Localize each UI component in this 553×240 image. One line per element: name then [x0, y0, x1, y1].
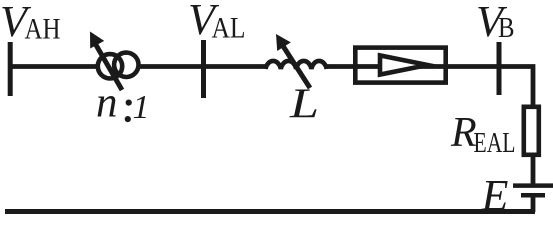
svg-text:EAL: EAL — [474, 127, 516, 159]
svg-text:n: n — [96, 80, 118, 127]
wire amplifier to corner and down — [448, 67, 533, 187]
wire transformer to inductor — [140, 64, 266, 69]
wire through amplifier box — [353, 64, 448, 69]
inductor L coil — [266, 61, 327, 69]
battery E top plate — [513, 183, 553, 188]
label VB — [476, 0, 515, 46]
node VAH tick — [8, 42, 13, 96]
wire battery to ground rail — [531, 195, 536, 212]
wire inductor to amplifier — [327, 64, 356, 69]
battery E bottom plate — [521, 193, 545, 198]
amplifier triangle — [380, 55, 428, 74]
node VAL tick — [201, 40, 206, 98]
label VAH — [0, 0, 61, 46]
resistor REAL body — [524, 107, 539, 155]
svg-text:1: 1 — [133, 89, 150, 126]
svg-text:B: B — [498, 12, 515, 44]
wire from VAH tick to transformer — [10, 64, 97, 69]
inductor adjustment arrow — [276, 34, 310, 88]
transformer adjustment arrow — [90, 32, 122, 91]
amplifier U1 box — [355, 48, 445, 83]
svg-text:AL: AL — [212, 13, 246, 45]
svg-text:AH: AH — [25, 14, 61, 46]
ground rail — [5, 209, 535, 214]
label VAL — [188, 0, 246, 45]
svg-text:L: L — [289, 82, 319, 128]
label REAL — [450, 110, 516, 159]
transformer T1 windings — [98, 53, 139, 79]
node VB tick — [497, 42, 502, 95]
label n:1 — [96, 80, 150, 127]
